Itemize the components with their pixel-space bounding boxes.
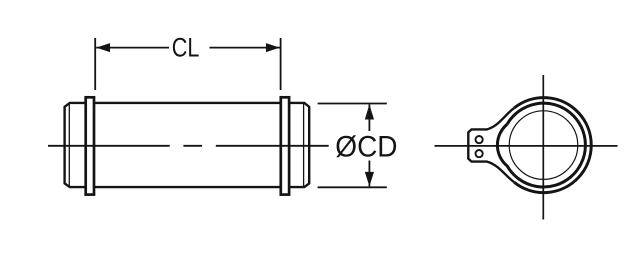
dimension CL line left segment <box>96 47 169 49</box>
dimension OCD line bottom segment <box>368 161 370 187</box>
ring end view: groove circle (thin inner circle) <box>509 111 578 180</box>
dimension CL arrowhead right <box>266 43 280 52</box>
dimension CL line right segment <box>210 47 281 49</box>
ring lug tab outline with fillets <box>468 108 514 182</box>
ring end view: ring outer edge arc <box>514 98 591 193</box>
chamfer tangent line left <box>68 103 70 187</box>
dimension OCD extension line top <box>318 103 387 105</box>
svg-text:ØCD: ØCD <box>335 131 397 164</box>
centerline of pin (dash-dot) <box>48 145 170 147</box>
dimension CL extension line left <box>94 38 96 90</box>
ring end view: ring inner edge circle <box>497 103 585 187</box>
end view vertical centerline <box>542 75 544 220</box>
dimension OCD arrowhead up <box>365 104 374 119</box>
chamfer tangent line right <box>303 103 305 187</box>
retaining ring right (side view groove ring) <box>281 97 289 194</box>
svg-text:CL: CL <box>172 33 200 63</box>
retaining ring left (side view groove ring) <box>86 97 94 194</box>
lug hole upper <box>476 136 483 143</box>
pin body (side view outline with chamfered ends) <box>65 103 310 187</box>
dimension OCD arrowhead down <box>365 172 374 187</box>
dimension OCD line top segment <box>368 104 370 131</box>
lug hole lower <box>476 150 483 157</box>
end view horizontal centerline <box>435 145 618 147</box>
dimension CL arrowhead left <box>96 43 110 52</box>
dimension OCD extension line bottom <box>318 186 387 188</box>
dimension CL extension line right <box>280 38 282 90</box>
